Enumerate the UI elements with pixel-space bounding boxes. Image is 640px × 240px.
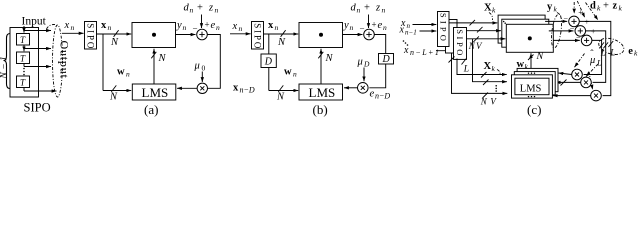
- svg-text:n: n: [357, 6, 361, 15]
- svg-text:n: n: [216, 23, 220, 32]
- svg-text:z: z: [375, 3, 380, 14]
- svg-text:n−L+1: n−L+1: [410, 48, 440, 57]
- svg-text:x: x: [101, 20, 107, 31]
- svg-text:L: L: [609, 48, 615, 58]
- svg-text:0: 0: [202, 64, 206, 73]
- svg-text:L: L: [600, 48, 606, 58]
- svg-text:n: n: [382, 6, 386, 15]
- svg-text:μ: μ: [357, 57, 363, 68]
- svg-text:SIPO: SIPO: [85, 23, 95, 50]
- svg-text:Output: Output: [58, 41, 72, 79]
- svg-text:L: L: [596, 58, 602, 68]
- svg-text:+: +: [197, 3, 203, 14]
- svg-text:y: y: [547, 2, 553, 13]
- svg-text:n−D: n−D: [375, 92, 390, 101]
- svg-text:SIPO: SIPO: [24, 101, 51, 115]
- svg-text:n: n: [215, 6, 219, 15]
- svg-text:N: N: [158, 53, 167, 64]
- svg-text:LMS: LMS: [309, 85, 336, 100]
- svg-text:x: x: [64, 20, 70, 31]
- svg-text:L: L: [463, 65, 469, 75]
- svg-text:N − 1: N − 1: [0, 56, 9, 79]
- svg-text:+: +: [585, 18, 590, 27]
- svg-text:n: n: [275, 23, 279, 32]
- svg-text:w: w: [117, 67, 125, 78]
- svg-text:N: N: [480, 97, 488, 107]
- svg-text:μ: μ: [194, 61, 200, 72]
- svg-text:y: y: [176, 20, 182, 31]
- svg-text:n: n: [350, 23, 354, 32]
- svg-text:N: N: [468, 41, 476, 51]
- svg-text:LMS: LMS: [142, 85, 169, 100]
- svg-text:−: −: [564, 15, 569, 24]
- svg-text:e: e: [378, 20, 383, 31]
- svg-text:x: x: [399, 25, 405, 36]
- svg-text:−: −: [360, 24, 365, 34]
- svg-text:n: n: [239, 24, 243, 33]
- svg-text:x: x: [232, 21, 238, 32]
- svg-text:N: N: [110, 37, 119, 48]
- svg-text:N: N: [109, 92, 118, 103]
- svg-text:e: e: [370, 89, 375, 100]
- svg-text:e: e: [211, 20, 216, 31]
- svg-text:(c): (c): [527, 102, 541, 117]
- svg-text:−: −: [193, 24, 198, 34]
- svg-text:D: D: [264, 57, 273, 68]
- svg-text:+: +: [205, 20, 210, 30]
- svg-text:z: z: [208, 3, 213, 14]
- svg-text:(a): (a): [144, 102, 158, 117]
- svg-text:+: +: [364, 3, 370, 14]
- svg-text:n: n: [293, 70, 297, 79]
- svg-text:D: D: [363, 60, 370, 69]
- svg-text:n: n: [71, 23, 75, 32]
- svg-text:N: N: [276, 92, 285, 103]
- svg-text:LMS: LMS: [520, 83, 542, 94]
- svg-text:n: n: [126, 70, 130, 79]
- svg-text:n: n: [108, 23, 112, 32]
- svg-text:z: z: [613, 1, 618, 12]
- svg-text:n−D: n−D: [240, 86, 255, 95]
- svg-text:X: X: [484, 3, 492, 14]
- svg-text:SIPO: SIPO: [455, 29, 465, 58]
- svg-text:n: n: [190, 6, 194, 15]
- svg-text:w: w: [284, 67, 292, 78]
- svg-text:D: D: [382, 54, 391, 65]
- svg-text:N: N: [536, 51, 545, 62]
- svg-text:SIPO: SIPO: [438, 13, 448, 44]
- svg-text:X: X: [484, 61, 492, 72]
- svg-text:Input: Input: [22, 16, 47, 28]
- svg-text:N: N: [325, 53, 334, 64]
- svg-text:+: +: [372, 20, 377, 30]
- svg-text:(b): (b): [313, 102, 328, 117]
- svg-text:n: n: [383, 23, 387, 32]
- svg-text:e: e: [628, 46, 633, 57]
- svg-text:x: x: [233, 83, 239, 94]
- svg-text:n−1: n−1: [405, 29, 417, 37]
- svg-text:x: x: [403, 45, 409, 56]
- svg-text:SIPO: SIPO: [252, 23, 262, 50]
- svg-text:y: y: [343, 20, 349, 31]
- svg-text:+: +: [603, 1, 609, 12]
- svg-text:+: +: [591, 27, 596, 36]
- svg-text:x: x: [268, 20, 274, 31]
- svg-text:N: N: [277, 37, 286, 48]
- svg-text:n: n: [183, 23, 187, 32]
